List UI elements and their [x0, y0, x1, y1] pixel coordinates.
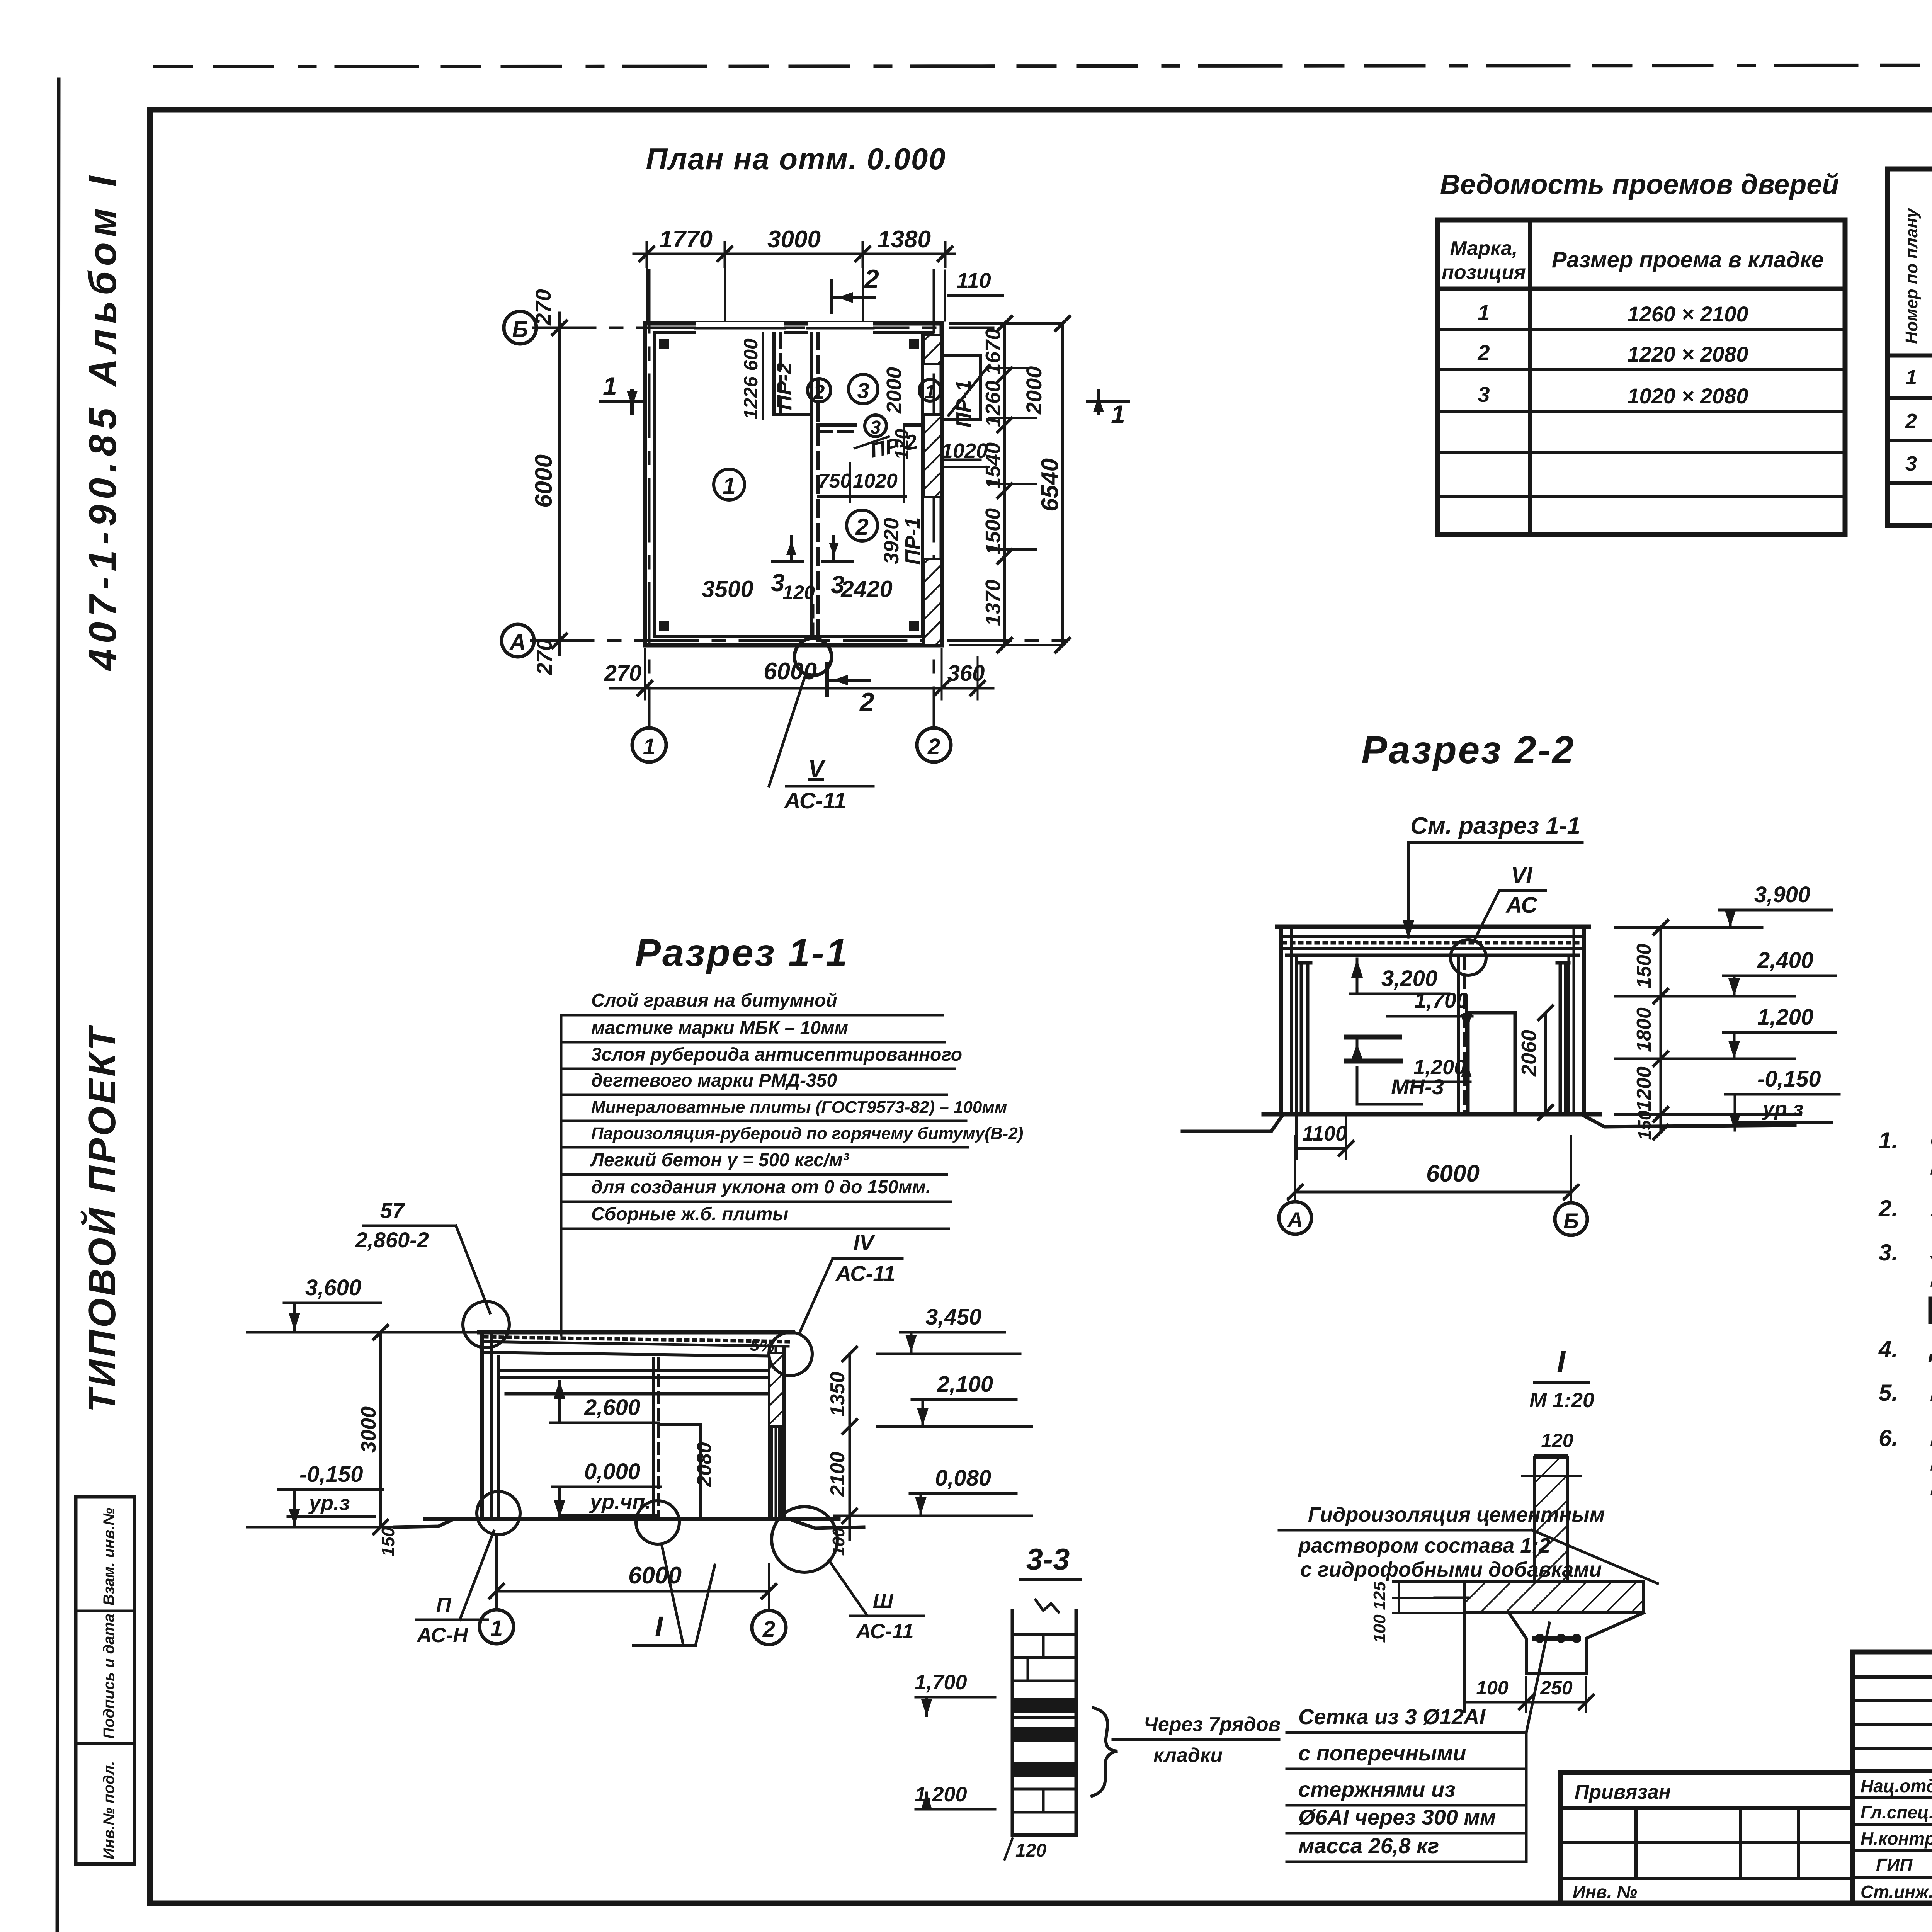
svg-text:2.: 2. [1878, 1196, 1898, 1221]
svg-text:2,400: 2,400 [1757, 948, 1813, 973]
svg-text:2080: 2080 [693, 1442, 716, 1487]
svg-text:5.: 5. [1879, 1380, 1898, 1406]
svg-text:ур.з: ур.з [308, 1492, 350, 1515]
svg-text:Разрез 2-2: Разрез 2-2 [1361, 728, 1575, 772]
svg-text:М 1:20: М 1:20 [1529, 1389, 1594, 1412]
svg-text:120: 120 [782, 582, 815, 603]
svg-text:Разрез 1-1: Разрез 1-1 [635, 931, 849, 975]
svg-text:Через 7рядов: Через 7рядов [1144, 1713, 1281, 1736]
svg-text:1370: 1370 [981, 580, 1005, 626]
svg-text:1,200: 1,200 [915, 1783, 967, 1806]
svg-text:-0,150: -0,150 [1757, 1066, 1821, 1092]
svg-text:пола здания, что соответств: пола здания, что соответствует абсолютно… [1930, 1266, 1932, 1292]
svg-text:АС-11: АС-11 [784, 788, 846, 813]
svg-text:-0,150: -0,150 [299, 1462, 363, 1487]
svg-text:Указания по монтажу здания: Указания по монтажу здания смотрите лист… [1930, 1196, 1932, 1221]
svg-text:150: 150 [378, 1527, 398, 1556]
svg-text:Размер проема в кладке: Размер проема в кладке [1552, 247, 1824, 272]
svg-text:Номер по плану: Номер по плану [1902, 207, 1921, 344]
svg-text:1350: 1350 [827, 1372, 849, 1417]
svg-text:3000: 3000 [357, 1406, 380, 1453]
svg-text:с поперечными: с поперечными [1298, 1741, 1466, 1765]
svg-text:ПР-2: ПР-2 [773, 363, 796, 410]
svg-text:2: 2 [859, 687, 874, 717]
svg-text:2: 2 [813, 381, 825, 403]
svg-text:100: 100 [1476, 1677, 1509, 1699]
svg-text:407-1-90.85 Альбом I: 407-1-90.85 Альбом I [81, 171, 124, 671]
svg-text:2420: 2420 [840, 576, 892, 602]
svg-text:1: 1 [643, 734, 655, 759]
svg-text:1.: 1. [1879, 1128, 1898, 1153]
svg-text:1,700: 1,700 [915, 1671, 967, 1694]
svg-text:1770: 1770 [659, 226, 713, 253]
svg-text:Инв. №: Инв. № [1573, 1882, 1637, 1902]
svg-text:3000: 3000 [767, 226, 821, 253]
svg-text:План на отм. 0.000: План на отм. 0.000 [646, 142, 946, 176]
svg-text:1: 1 [1478, 300, 1490, 325]
svg-text:Конструкцию детали МН-3 см: Конструкцию детали МН-3 смотрите лист АС… [1930, 1380, 1932, 1406]
svg-text:Марка,: Марка, [1450, 237, 1518, 260]
svg-text:2: 2 [1905, 410, 1917, 433]
svg-text:2: 2 [864, 264, 879, 294]
svg-text:3: 3 [857, 378, 869, 403]
svg-text:3: 3 [771, 569, 785, 597]
svg-text:Данный лист смотреть совме: Данный лист смотреть совместно с листом … [1928, 1336, 1932, 1362]
svg-text:2: 2 [927, 734, 940, 759]
svg-text:ур.з: ур.з [1762, 1097, 1804, 1121]
svg-text:1200: 1200 [1633, 1066, 1655, 1111]
svg-text:110: 110 [956, 268, 991, 293]
svg-text:1500: 1500 [981, 508, 1005, 554]
svg-text:Н.контр.: Н.контр. [1861, 1828, 1932, 1849]
svg-text:2100: 2100 [827, 1452, 849, 1497]
svg-text:Слой гравия на битумной: Слой гравия на битумной [591, 990, 837, 1011]
svg-text:VI: VI [1511, 863, 1533, 888]
svg-text:стержнями из: стержнями из [1298, 1777, 1456, 1801]
svg-text:Подпись и дата: Подпись и дата [100, 1614, 117, 1739]
svg-text:позиция: позиция [1442, 261, 1526, 284]
svg-text:3.: 3. [1879, 1240, 1898, 1265]
svg-text:приемную сетку из арматуры: приемную сетку из арматуры Ø6АI (смотрет… [1930, 1450, 1932, 1476]
svg-text:1220 × 2080: 1220 × 2080 [1628, 342, 1748, 366]
svg-text:1: 1 [490, 1616, 503, 1641]
svg-text:Взам. инв.№: Взам. инв.№ [100, 1508, 117, 1605]
svg-text:120: 120 [1015, 1840, 1046, 1861]
svg-text:2,860-2: 2,860-2 [355, 1228, 429, 1252]
svg-text:1020 × 2080: 1020 × 2080 [1628, 384, 1748, 408]
svg-text:Сетка из 3 Ø12АI: Сетка из 3 Ø12АI [1298, 1704, 1486, 1729]
svg-text:Привязан: Привязан [1575, 1781, 1671, 1803]
svg-text:1: 1 [1111, 400, 1125, 429]
svg-text:3,900: 3,900 [1754, 882, 1810, 907]
svg-text:Сборные ж.б. плиты: Сборные ж.б. плиты [591, 1204, 788, 1225]
svg-text:П: П [436, 1594, 452, 1617]
svg-text:0,000: 0,000 [584, 1459, 640, 1484]
svg-text:пояснительную записку лист: пояснительную записку лист АС-02 [1930, 1154, 1932, 1180]
svg-text:Б: Б [512, 317, 528, 342]
svg-text:Минераловатные плиты (ГОСТ95: Минераловатные плиты (ГОСТ9573-82) – 100… [591, 1098, 1007, 1117]
svg-text:3500: 3500 [702, 576, 753, 602]
svg-text:Инв.№ подл.: Инв.№ подл. [100, 1761, 117, 1859]
svg-text:мастике марки МБК – 10м: мастике марки МБК – 10мм [591, 1018, 848, 1038]
svg-text:1020: 1020 [941, 439, 988, 463]
svg-text:V: V [808, 755, 826, 782]
svg-text:Легкий бетон γ = 500 кгс/м³: Легкий бетон γ = 500 кгс/м³ [590, 1150, 850, 1170]
svg-text:2060: 2060 [1517, 1030, 1541, 1077]
svg-text:АС-11: АС-11 [835, 1261, 896, 1286]
svg-text:АС-Н: АС-Н [416, 1624, 468, 1647]
svg-text:За условную отметку 0,000: За условную отметку 0,000 принят уровень… [1930, 1240, 1932, 1265]
svg-text:100: 100 [829, 1527, 848, 1556]
svg-text:3,600: 3,600 [305, 1275, 361, 1300]
svg-text:1: 1 [603, 372, 617, 400]
svg-text:1: 1 [723, 473, 735, 499]
svg-text:Ш: Ш [873, 1590, 894, 1613]
svg-text:3-3: 3-3 [1026, 1542, 1070, 1576]
svg-text:Пароизоляция-рубероид по горяч: Пароизоляция-рубероид по горячему битуму… [591, 1124, 1023, 1143]
svg-text:ГИП: ГИП [1876, 1855, 1913, 1875]
svg-text:АС-11: АС-11 [855, 1620, 913, 1643]
svg-text:Нац.отд.: Нац.отд. [1861, 1776, 1932, 1796]
svg-text:750: 750 [818, 470, 852, 492]
svg-text:раствором состава 1:2: раствором состава 1:2 [1298, 1534, 1550, 1557]
svg-text:6000: 6000 [531, 454, 557, 508]
svg-text:с гидрофобными добавками: с гидрофобными добавками [1300, 1558, 1602, 1581]
svg-text:1: 1 [1905, 366, 1917, 389]
svg-text:Гл.спец.: Гл.спец. [1861, 1802, 1932, 1822]
svg-text:1800: 1800 [1633, 1007, 1655, 1052]
svg-text:360: 360 [947, 661, 985, 686]
svg-text:270: 270 [604, 661, 642, 686]
svg-text:А: А [509, 630, 526, 655]
svg-text:2: 2 [855, 514, 868, 540]
svg-text:2,600: 2,600 [584, 1395, 640, 1420]
svg-text:3слоя рубероида антисептиров: 3слоя рубероида антисептированного [591, 1044, 962, 1065]
svg-text:I: I [1557, 1345, 1566, 1379]
svg-text:4.: 4. [1878, 1336, 1898, 1362]
svg-text:2,100: 2,100 [937, 1372, 993, 1397]
svg-text:Общие примечания по привязке: Общие примечания по привязке проекта смо… [1930, 1128, 1932, 1153]
svg-text:3: 3 [1905, 452, 1917, 475]
svg-text:1380: 1380 [878, 226, 931, 253]
svg-text:1260 × 2100: 1260 × 2100 [1628, 302, 1748, 326]
svg-text:дегтевого марки РМД-350: дегтевого марки РМД-350 [591, 1070, 837, 1091]
svg-text:1500: 1500 [1633, 944, 1655, 988]
svg-text:Гидроизоляция цементным: Гидроизоляция цементным [1308, 1503, 1605, 1526]
svg-text:6.: 6. [1879, 1425, 1898, 1451]
svg-text:600: 600 [740, 338, 762, 371]
svg-text:Ø6АI через 300 мм: Ø6АI через 300 мм [1298, 1805, 1496, 1829]
svg-text:См. разрез 1-1: См. разрез 1-1 [1410, 813, 1580, 839]
svg-text:1,200: 1,200 [1757, 1005, 1813, 1030]
svg-text:ТИПОВОЙ ПРОЕКТ: ТИПОВОЙ ПРОЕКТ [80, 1025, 123, 1412]
svg-text:2: 2 [762, 1617, 775, 1642]
svg-text:техническую часть проекта: техническую часть проекта ). [1930, 1475, 1932, 1500]
svg-text:125: 125 [1370, 1582, 1389, 1610]
svg-text:3,450: 3,450 [925, 1304, 981, 1330]
svg-text:3: 3 [831, 571, 845, 599]
svg-text:Ст.инж.: Ст.инж. [1861, 1882, 1932, 1902]
svg-text:250: 250 [1540, 1677, 1573, 1699]
svg-text:масса 26,8 кг: масса 26,8 кг [1298, 1833, 1439, 1858]
svg-text:3920: 3920 [880, 518, 903, 564]
svg-text:6000: 6000 [764, 658, 817, 685]
svg-text:6000: 6000 [1426, 1160, 1480, 1187]
svg-text:1,700: 1,700 [1414, 988, 1468, 1012]
svg-text:3,200: 3,200 [1381, 966, 1437, 991]
svg-text:А: А [1287, 1207, 1303, 1232]
svg-text:2000: 2000 [1022, 366, 1046, 415]
svg-text:Ведомость проемов дверей: Ведомость проемов дверей [1440, 169, 1839, 200]
svg-text:ПР-1: ПР-1 [901, 517, 924, 565]
svg-text:1260: 1260 [981, 381, 1005, 427]
svg-text:1: 1 [925, 382, 935, 402]
svg-text:270: 270 [532, 639, 556, 675]
svg-text:кладки: кладки [1153, 1744, 1223, 1767]
svg-text:Б: Б [1563, 1209, 1579, 1233]
svg-text:120: 120 [1541, 1430, 1573, 1451]
svg-text:6000: 6000 [628, 1562, 682, 1589]
svg-text:Перед устройством кровли по: Перед устройством кровли по плитам уложи… [1930, 1425, 1932, 1451]
svg-text:2: 2 [1477, 340, 1490, 365]
svg-text:1226: 1226 [740, 376, 762, 419]
svg-text:1020: 1020 [853, 470, 898, 492]
svg-text:57: 57 [380, 1198, 405, 1223]
svg-text:1100: 1100 [1302, 1122, 1347, 1145]
svg-text:МН-3: МН-3 [1391, 1075, 1444, 1099]
svg-text:0,080: 0,080 [935, 1466, 991, 1491]
svg-text:для создания уклона от 0 до: для создания уклона от 0 до 150мм. [591, 1177, 931, 1197]
svg-text:3: 3 [1478, 382, 1490, 406]
svg-text:6540: 6540 [1037, 458, 1063, 512]
svg-text:АС: АС [1505, 893, 1538, 918]
svg-text:100: 100 [1370, 1614, 1389, 1643]
svg-text:150: 150 [1634, 1110, 1655, 1140]
svg-text:I: I [655, 1611, 663, 1643]
svg-text:IV: IV [854, 1230, 876, 1255]
svg-text:3: 3 [871, 417, 881, 438]
svg-text:2000: 2000 [883, 367, 906, 414]
